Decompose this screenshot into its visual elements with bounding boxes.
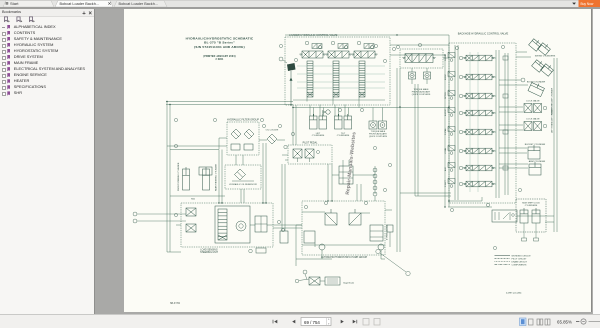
svg-text:(S/N 5724511001 AND ABOVE): (S/N 5724511001 AND ABOVE) <box>194 45 245 49</box>
svg-text:LOAD SENSING: LOAD SENSING <box>200 248 217 251</box>
svg-text:Bobcat Loader Backh...: Bobcat Loader Backh... <box>60 2 99 6</box>
svg-text:COMPONENTS: COMPONENTS <box>512 264 528 266</box>
svg-text:QUICK COUPLERS: QUICK COUPLERS <box>369 136 388 138</box>
svg-text:SB-P-784: SB-P-784 <box>170 303 181 305</box>
svg-text:AUX: AUX <box>444 167 447 171</box>
svg-text:DIPPER: DIPPER <box>445 92 447 99</box>
svg-text:BUCKET CYLINDER: BUCKET CYLINDER <box>525 144 546 146</box>
svg-text:AUTOMATIC/HYDROSTATIC PUMP GRO: AUTOMATIC/HYDROSTATIC PUMP GROUP <box>321 256 368 259</box>
svg-text:QUICK COUPLERS: QUICK COUPLERS <box>412 94 431 96</box>
svg-text:Buy Now: Buy Now <box>581 2 594 6</box>
svg-text:DRAIN CIRCUIT: DRAIN CIRCUIT <box>512 260 528 263</box>
svg-text:L STAB: L STAB <box>444 147 447 154</box>
svg-text:CYLINDERS: CYLINDERS <box>337 135 350 137</box>
svg-text:BUCKET: BUCKET <box>445 108 447 116</box>
svg-text:FRONT STEERING CYLINDER: FRONT STEERING CYLINDER <box>178 162 180 191</box>
svg-text:HYDRAULIC FILTER GROUP: HYDRAULIC FILTER GROUP <box>227 119 259 122</box>
svg-text:WORKING CIRCUIT: WORKING CIRCUIT <box>512 255 532 257</box>
svg-text:# 6901: # 6901 <box>216 59 224 61</box>
svg-text:BOOM: BOOM <box>445 74 447 80</box>
svg-text:BACKHOE HYDRAULIC CONTROL VALV: BACKHOE HYDRAULIC CONTROL VALVE <box>458 31 509 35</box>
svg-text:REAR STEERING CYLINDER: REAR STEERING CYLINDER <box>215 163 218 191</box>
svg-text:ARM CYLINDER: ARM CYLINDER <box>529 160 546 163</box>
svg-text:CYLINDERS: CYLINDERS <box>525 205 538 207</box>
svg-text:STEERING UNIT: STEERING UNIT <box>200 252 218 254</box>
svg-text:69 / 754: 69 / 754 <box>304 320 320 325</box>
svg-text:PILOT CIRCUIT: PILOT CIRCUIT <box>512 258 528 260</box>
svg-text:LEFT STABILIZER CYLINDER: LEFT STABILIZER CYLINDER <box>551 106 554 133</box>
svg-text:Start: Start <box>10 1 19 6</box>
svg-text:CYLINDERS: CYLINDERS <box>312 135 325 137</box>
svg-text:LOCK VALVE: LOCK VALVE <box>526 118 540 121</box>
svg-text:9602: 9602 <box>191 199 195 201</box>
svg-text:OIL COOLER: OIL COOLER <box>266 130 279 132</box>
svg-text:Gage Brake: Gage Brake <box>343 282 355 285</box>
svg-text:(PRINTED JANUARY 2004): (PRINTED JANUARY 2004) <box>203 55 235 58</box>
svg-text:SWING CYLINDERS: SWING CYLINDERS <box>535 56 556 58</box>
svg-text:S SHIFT: S SHIFT <box>445 179 447 187</box>
svg-text:Repair-Manuals-Websites: Repair-Manuals-Websites <box>345 132 358 195</box>
svg-text:Bobcat Loader Backh...: Bobcat Loader Backh... <box>119 2 158 6</box>
svg-text:4-6987 (2-14-B6): 4-6987 (2-14-B6) <box>506 293 522 295</box>
svg-text:R STAB: R STAB <box>444 128 447 135</box>
svg-text:65.85%: 65.85% <box>557 320 572 325</box>
svg-text:BOOM CYLINDER: BOOM CYLINDER <box>527 82 546 84</box>
svg-text:PILOT PEDAL: PILOT PEDAL <box>303 142 318 145</box>
svg-text:HYDRAULIC OIL RESERVOIR: HYDRAULIC OIL RESERVOIR <box>229 183 257 186</box>
svg-text:LOCK VALVE: LOCK VALVE <box>526 100 540 103</box>
